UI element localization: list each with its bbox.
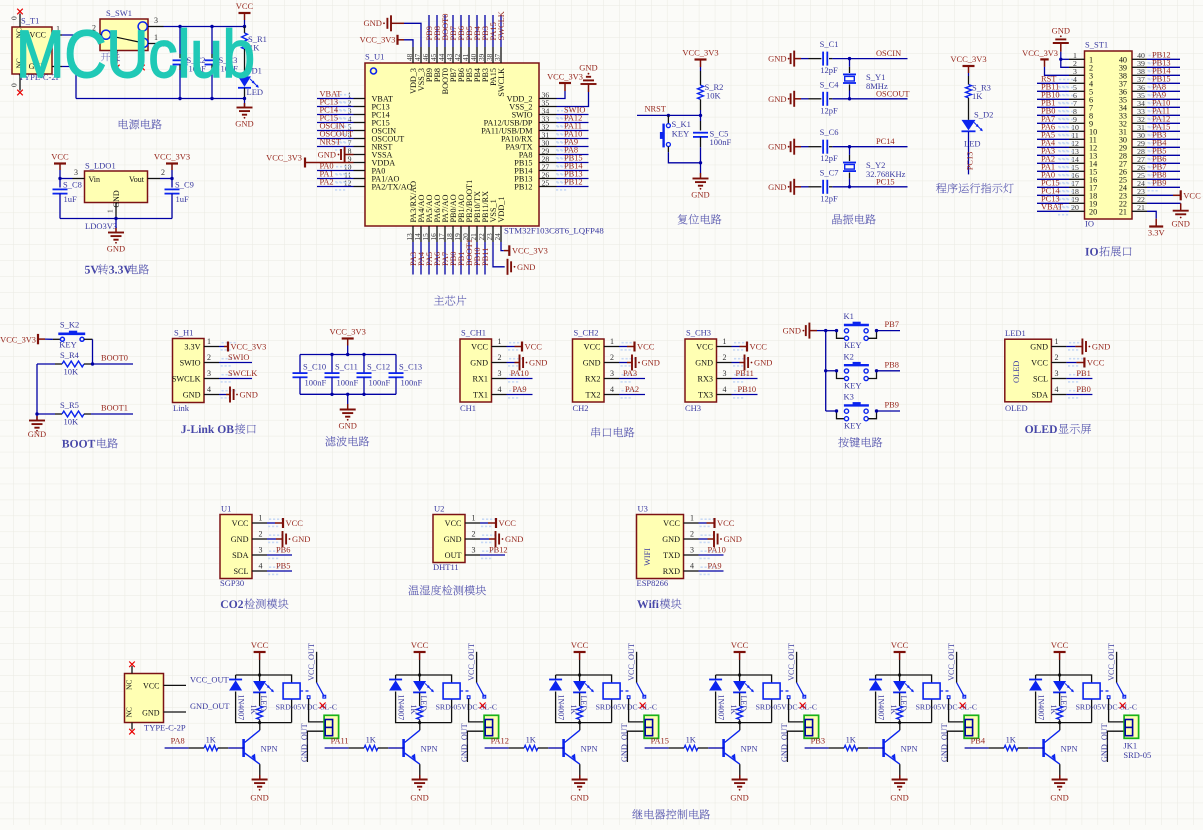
wire collector relay 2 [419,723,421,731]
svg-text:VCC_3V3: VCC_3V3 [1022,49,1058,58]
svg-text:1: 1 [498,337,502,346]
svg-text:RX3: RX3 [698,375,713,384]
pin 3 PC14 of S_U1 [348,106,390,119]
ground GND relay 4 [730,775,748,803]
svg-text:1K: 1K [889,705,898,715]
label SRD-05VDC-SL-C relay 4 [756,703,818,712]
svg-text:VCC_OUT: VCC_OUT [307,643,316,681]
transistor NPN relay 1 [244,730,278,764]
power port VCC relay 6 [1051,640,1069,675]
svg-text:12pF: 12pF [820,193,838,203]
wire collector relay 1 [259,723,261,731]
svg-text:GND: GND [724,534,742,544]
resistor 1K input relay 4 [645,736,724,751]
resistor S_R4 10K [37,350,133,377]
svg-text:S_C11: S_C11 [335,362,358,372]
wire net PC13 indicator [968,132,970,175]
wire LDO Vout [160,178,172,180]
svg-text:1K: 1K [729,705,738,715]
label JK1 [1123,741,1137,751]
wire collector relay 6 [1059,723,1061,731]
connector S_CH3 body [685,328,748,414]
voltage regulator S_LDO1 LDO3V3 [73,161,166,232]
wire net PA3 st1 [1037,151,1073,160]
connector S_ST1 body [1085,40,1133,229]
ground GND at VSS_1 [493,242,535,275]
wire GND_OUT relay 5 [947,731,964,762]
wire net PB11 S_CH3 [732,378,758,380]
net label VBAT st1 [1041,203,1063,212]
svg-text:S_D2: S_D2 [974,110,993,120]
diode 1N4007 relay 5 [869,680,885,721]
junction filter top [362,353,365,356]
svg-text:GND: GND [579,63,597,73]
svg-text:VCC: VCC [1183,190,1201,200]
wire net PA8 st1r [1147,87,1180,96]
net label PA9 [564,138,578,147]
power port VCC relay 1 [251,640,269,675]
ground GND power circuit [235,99,253,129]
svg-text:3: 3 [610,369,614,378]
svg-text:1N4007: 1N4007 [876,695,885,721]
pin 31 PA10/RX of S_U1 [501,130,557,143]
wire filter top rail [300,354,396,356]
svg-text:VCC: VCC [891,640,909,650]
net label PC15 st1 [1041,179,1060,188]
svg-text:SCL: SCL [1033,375,1048,384]
wire net PA3 S_CH2 [619,378,645,380]
svg-text:SCL: SCL [233,567,248,576]
capacitor S_C7 12pF [801,167,850,203]
svg-text:1: 1 [259,514,263,523]
wire net PB9 st1r [1147,183,1180,192]
wire power bottom rail [76,98,245,100]
svg-text:RXD: RXD [663,567,680,576]
power VCC_3V3 at VDD_2 [547,73,583,99]
label GND_OUT relay 3 [620,723,629,762]
svg-text:21: 21 [1137,203,1145,212]
svg-text:CH3: CH3 [685,403,701,413]
wire NRST [637,114,701,116]
wire net PB1 st1 [1037,103,1073,112]
wire relay frame relay 6 [1036,675,1092,723]
resistor 1K relay 1 [249,693,262,723]
pin 20 of S_ST1 [1069,203,1097,216]
wire net PC15 [317,118,354,127]
net label PA15 relay 4 [651,737,669,746]
capacitor S_C2 10uF [173,27,207,99]
pin 12 of S_ST1 [1069,139,1097,152]
junction key2 [824,369,827,372]
title J-Link OB接口 [181,424,255,434]
resistor 1K relay 2 [409,693,422,723]
junction st1 gnd [1059,58,1062,61]
pin 10 PA0 of S_U1 [344,162,386,175]
net label PA7 bottom [441,252,450,266]
svg-text:GND: GND [240,390,258,400]
net label PB13 [564,170,583,179]
wire net OSCOUT [850,98,908,100]
svg-text:GND: GND [470,359,488,368]
net label PB12 [564,178,583,187]
wire net PB0 bottom [452,242,454,275]
svg-text:VCC: VCC [286,518,304,528]
wire net PA10 [556,134,589,143]
wire net PA0 [317,166,354,175]
power port VCC_3V3 jlink [219,342,266,352]
svg-text:S_C1: S_C1 [820,39,839,49]
net label PA7 st1 [1041,115,1055,124]
svg-text:VCC_3V3: VCC_3V3 [330,327,366,337]
wire collector relay 4 [739,723,741,731]
svg-text:1K: 1K [1006,736,1016,745]
net label RST st1 [1041,75,1056,84]
wire net PB7 top [452,15,454,47]
pin 3 of S_ST1 [1069,67,1093,80]
svg-text:GND: GND [730,793,748,803]
svg-text:PB6: PB6 [276,546,290,555]
wire net PB6 U1 [267,554,292,556]
svg-text:KEY: KEY [844,421,861,431]
wire net PB13 [556,174,589,183]
net label PA10 S_CH1 [511,369,529,378]
svg-text:VCC: VCC [1051,640,1069,650]
svg-text:PA15: PA15 [651,737,669,746]
pin 44 BOOT0 of S_U1 [437,47,450,94]
no-connect X relay typec top [129,662,135,668]
svg-text:3: 3 [723,369,727,378]
wire net PB15 st1r [1147,79,1180,88]
junction relay top relay 1 [258,673,261,676]
svg-text:PA12: PA12 [491,737,509,746]
net label PB14 st1r [1152,67,1171,76]
svg-text:VCC_OUT: VCC_OUT [190,676,229,685]
net label PB6 top [457,26,466,40]
power port VCC U1 [267,518,303,528]
ground GND at VSSA [318,147,354,163]
pin 26 of S_ST1 [1119,163,1147,176]
net label PB13 st1r [1152,59,1171,68]
ground GND oled [1066,339,1110,355]
relay switch VCC_OUT relay 5 [940,643,966,698]
junction relay bottom relay 4 [738,721,741,724]
net label PB1 st1 [1041,99,1055,108]
pin 37 of S_ST1 [1119,75,1147,88]
ground GND S_CH3 [732,355,773,371]
svg-text:100nF: 100nF [401,378,423,388]
svg-text:2: 2 [161,168,165,177]
svg-text:PB3: PB3 [811,737,825,746]
wire LDO ground rail [60,218,172,220]
transistor NPN relay 5 [884,730,918,764]
transistor NPN relay 2 [404,730,438,764]
push button K3 KEY [835,392,900,431]
wire S_T1 pin1 to S_SW1 pin2 [62,34,90,36]
diode 1N4007 relay 6 [1029,680,1045,721]
net label PA9 U3 [708,562,722,571]
svg-text:GND: GND [517,262,535,272]
power port VCC relay 5 [891,640,909,675]
svg-text:PA11: PA11 [331,737,349,746]
junction filter bottom [362,393,365,396]
power port VCC (LDO in) [51,152,69,179]
svg-text:TX3: TX3 [698,391,713,400]
power port VCC [236,1,254,27]
svg-text:1K: 1K [972,91,983,101]
pin 28 of S_ST1 [1119,147,1147,160]
ground GND reset [691,163,709,200]
resistor 1K relay 4 [729,693,742,723]
crystal S_Y1 8MHz [843,59,888,99]
net label PB0 oled [1076,385,1090,394]
svg-text:GND: GND [505,534,523,544]
pin 36 of S_ST1 [1119,83,1147,96]
wire net NRST [317,142,354,151]
title 按键电路 [838,437,882,447]
net label PA10 U3 [708,546,726,555]
svg-text:OSCIN: OSCIN [876,49,901,58]
pin 20 PB2/BOOT1 of S_U1 [461,180,474,242]
wire net PB11 bottom [484,242,486,275]
wire net PA8 [556,150,589,159]
wire net VBAT st1 [1037,207,1073,216]
resistor 1K relay 3 [569,693,582,723]
junction LDO Vin node [58,177,61,180]
svg-text:100nF: 100nF [710,137,732,147]
net label PA11 st1r [1152,107,1170,116]
pin 48 VDD_3 of S_U1 [405,47,418,94]
svg-text:4: 4 [1055,385,1059,394]
wire GND_OUT relay 4 [787,731,804,762]
svg-text:PB12: PB12 [564,178,583,187]
net label SWIO jlink [228,353,249,362]
wire emitter relay 6 [1059,764,1061,779]
svg-text:RX1: RX1 [473,375,488,384]
svg-text:GND: GND [364,18,382,28]
wire net PB1 oled [1066,378,1092,380]
module U1 SGP30 body [220,504,283,589]
wire net BOOT0 top [444,15,446,47]
x mark relay switch relay 1 [320,703,326,709]
net label PB12 U2 [489,546,508,555]
svg-text:VCC: VCC [471,343,488,352]
pin 35 VSS_2 of S_U1 [509,98,556,111]
svg-text:0: 0 [10,83,19,87]
title BOOT电路 [62,438,118,448]
no-connect X on S_T1 bottom pin [17,90,23,96]
svg-text:1K: 1K [526,736,536,745]
svg-text:PA2: PA2 [625,385,639,394]
junction relay bottom relay 3 [578,721,581,724]
title IO拓展口 [1085,246,1131,256]
wire key3 stub [826,410,837,412]
svg-text:2: 2 [1055,353,1059,362]
transistor NPN relay 3 [564,730,598,764]
junction key1 [824,329,827,332]
pin 29 PA8 of S_U1 [519,146,557,159]
svg-text:S_K2: S_K2 [60,320,79,330]
junction top rail C2 [178,25,181,28]
net label PA6 bottom [433,252,442,266]
svg-text:U1: U1 [221,504,231,514]
svg-text:NRST: NRST [645,105,666,114]
label SRD-05VDC-SL-C relay 2 [436,703,498,712]
LED S_D2 [962,110,994,149]
svg-text:100nF: 100nF [305,378,327,388]
no-connect X relay typec bottom [129,729,135,735]
svg-text:GND: GND [338,421,356,431]
svg-text:4: 4 [498,385,502,394]
svg-text:VCC_3V3: VCC_3V3 [512,247,548,256]
net label PB1 oled [1076,369,1090,378]
svg-text:VCC: VCC [411,640,429,650]
wire net PC14 [850,146,908,148]
wire net PB8 st1r [1147,175,1180,184]
title OLED显示屏 [1025,424,1091,434]
wire net PA6 bottom [436,242,438,275]
svg-text:1: 1 [154,33,158,42]
title 晶振电路 [832,214,875,224]
resistor 1K input relay 1 [165,736,244,751]
svg-text:GND: GND [250,793,268,803]
wire relay frame relay 3 [556,675,612,723]
junction LDO gnd [114,217,117,220]
svg-text:GND: GND [107,244,125,254]
net label PA8 [564,146,578,155]
diode 1N4007 relay 3 [549,680,565,721]
svg-text:2: 2 [498,353,502,362]
label STM32F103C8T6_LQFP48 [504,226,604,236]
wire net PB14 [556,166,589,175]
svg-text:WIFI: WIFI [643,548,652,566]
net label PA0 [320,162,334,171]
wire net OSCOUT [317,134,354,143]
wire net PC13 [317,102,354,111]
svg-text:2: 2 [690,530,694,539]
pin 21 PB10/TX of S_U1 [469,191,482,242]
wire net PA15 st1r [1147,127,1180,136]
net label PA10 [564,130,582,139]
junction top rail C3 [210,25,213,28]
svg-text:SWIO: SWIO [180,359,201,368]
pin 14 of S_ST1 [1069,155,1097,168]
LED relay 5 [893,675,914,711]
wire net PB10 S_CH3 [732,394,758,396]
svg-text:PB1: PB1 [1076,369,1090,378]
terminal block JK relay 1 [324,715,339,738]
svg-text:TYPE-C-2P: TYPE-C-2P [144,723,186,733]
net label BOOT1 bottom [465,239,474,266]
svg-text:12pF: 12pF [820,65,838,75]
wire net PC15 [850,186,908,188]
push button K1 KEY [835,311,900,350]
wire GND_OUT relay 1 [307,731,324,762]
pin 2 PC13 of S_U1 [348,98,390,111]
svg-text:NRST: NRST [320,138,341,147]
pin 1 of S_ST1 [1069,51,1093,64]
net label PC14 st1 [1041,187,1060,196]
svg-text:S_R4: S_R4 [60,350,80,360]
svg-text:S_R5: S_R5 [60,400,79,410]
pin 34 of S_ST1 [1119,99,1147,112]
terminal block JK relay 6 [1124,715,1139,738]
svg-text:1K: 1K [846,736,856,745]
capacitor S_C8 1uF [53,179,82,219]
no-connect X on S_T1 top pin [17,9,23,15]
ground GND relay 2 [410,775,428,803]
net label PA15 st1r [1152,123,1170,132]
ground GND filter [338,394,356,430]
ground GND S_CH2 [619,355,660,371]
svg-text:VCC_3V3: VCC_3V3 [682,48,718,58]
svg-text:3: 3 [690,546,694,555]
wire key1 stub [826,330,837,332]
no-connect X below S_SW1 (a) [114,65,120,71]
pin 23 VSS_1 of S_U1 [485,199,498,242]
pin 32 PA11/USB/DM of S_U1 [481,122,556,135]
junction bottom rail C2 [178,97,181,100]
svg-text:S_LDO1: S_LDO1 [85,161,116,171]
wire net PB0 oled [1066,394,1092,396]
pin 30 PA9/TX of S_U1 [506,138,557,151]
svg-text:1N4007: 1N4007 [716,695,725,721]
svg-text:3: 3 [259,546,263,555]
power port VCC U3 [699,518,735,528]
junction top rail R1 [243,25,246,28]
label SRD-05VDC-SL-C relay 6 [1076,703,1138,712]
svg-text:37: 37 [493,53,502,61]
net label PB9 st1r [1152,179,1166,188]
net label PA3 bottom [409,252,418,266]
pin 43 PB7 of S_U1 [445,47,458,82]
pin 25 of S_ST1 [1119,171,1147,184]
capacitor S_C4 12pF [801,79,850,115]
svg-text:S_C6: S_C6 [820,127,839,137]
capacitor S_C6 12pF [801,127,850,163]
ground GND relay 1 [250,775,268,803]
svg-text:OUT: OUT [445,551,462,560]
pin 12 PA2/TX/AO of S_U1 [344,178,413,191]
net label PB5 U1 [276,562,290,571]
svg-text:VCC_3V3: VCC_3V3 [547,73,583,82]
svg-text:PB7: PB7 [885,320,899,329]
power port VCC_3V3 st1 [1022,49,1069,75]
svg-text:S_C7: S_C7 [820,167,839,177]
net label PB10 S_CH3 [738,385,757,394]
junction filter bottom [346,393,349,396]
display module LED1 OLED body [1005,328,1083,413]
svg-text:VCC_3V3: VCC_3V3 [231,343,267,352]
svg-text:GND: GND [28,429,46,439]
wire net PA2 [317,182,354,191]
net label PB14 [564,162,583,171]
transistor NPN relay 4 [724,730,758,764]
ground GND relay 6 [1050,775,1068,803]
net label PA8 relay 1 [171,737,185,746]
svg-text:1N4007: 1N4007 [396,695,405,721]
net label PB10 st1 [1041,91,1060,100]
svg-text:4: 4 [723,385,727,394]
svg-text:1N4007: 1N4007 [556,695,565,721]
pin 11 PA1/AO of S_U1 [344,170,400,183]
svg-text:0: 0 [10,16,19,20]
x mark relay switch relay 3 [640,703,646,709]
pin 30 of S_ST1 [1119,131,1147,144]
pin 4 PC15 of S_U1 [348,114,390,127]
net label PA2 st1 [1041,155,1055,164]
wire GND_OUT relay 2 [467,731,484,762]
MCU S_U1 STM32F103C8T6 body [365,52,539,227]
